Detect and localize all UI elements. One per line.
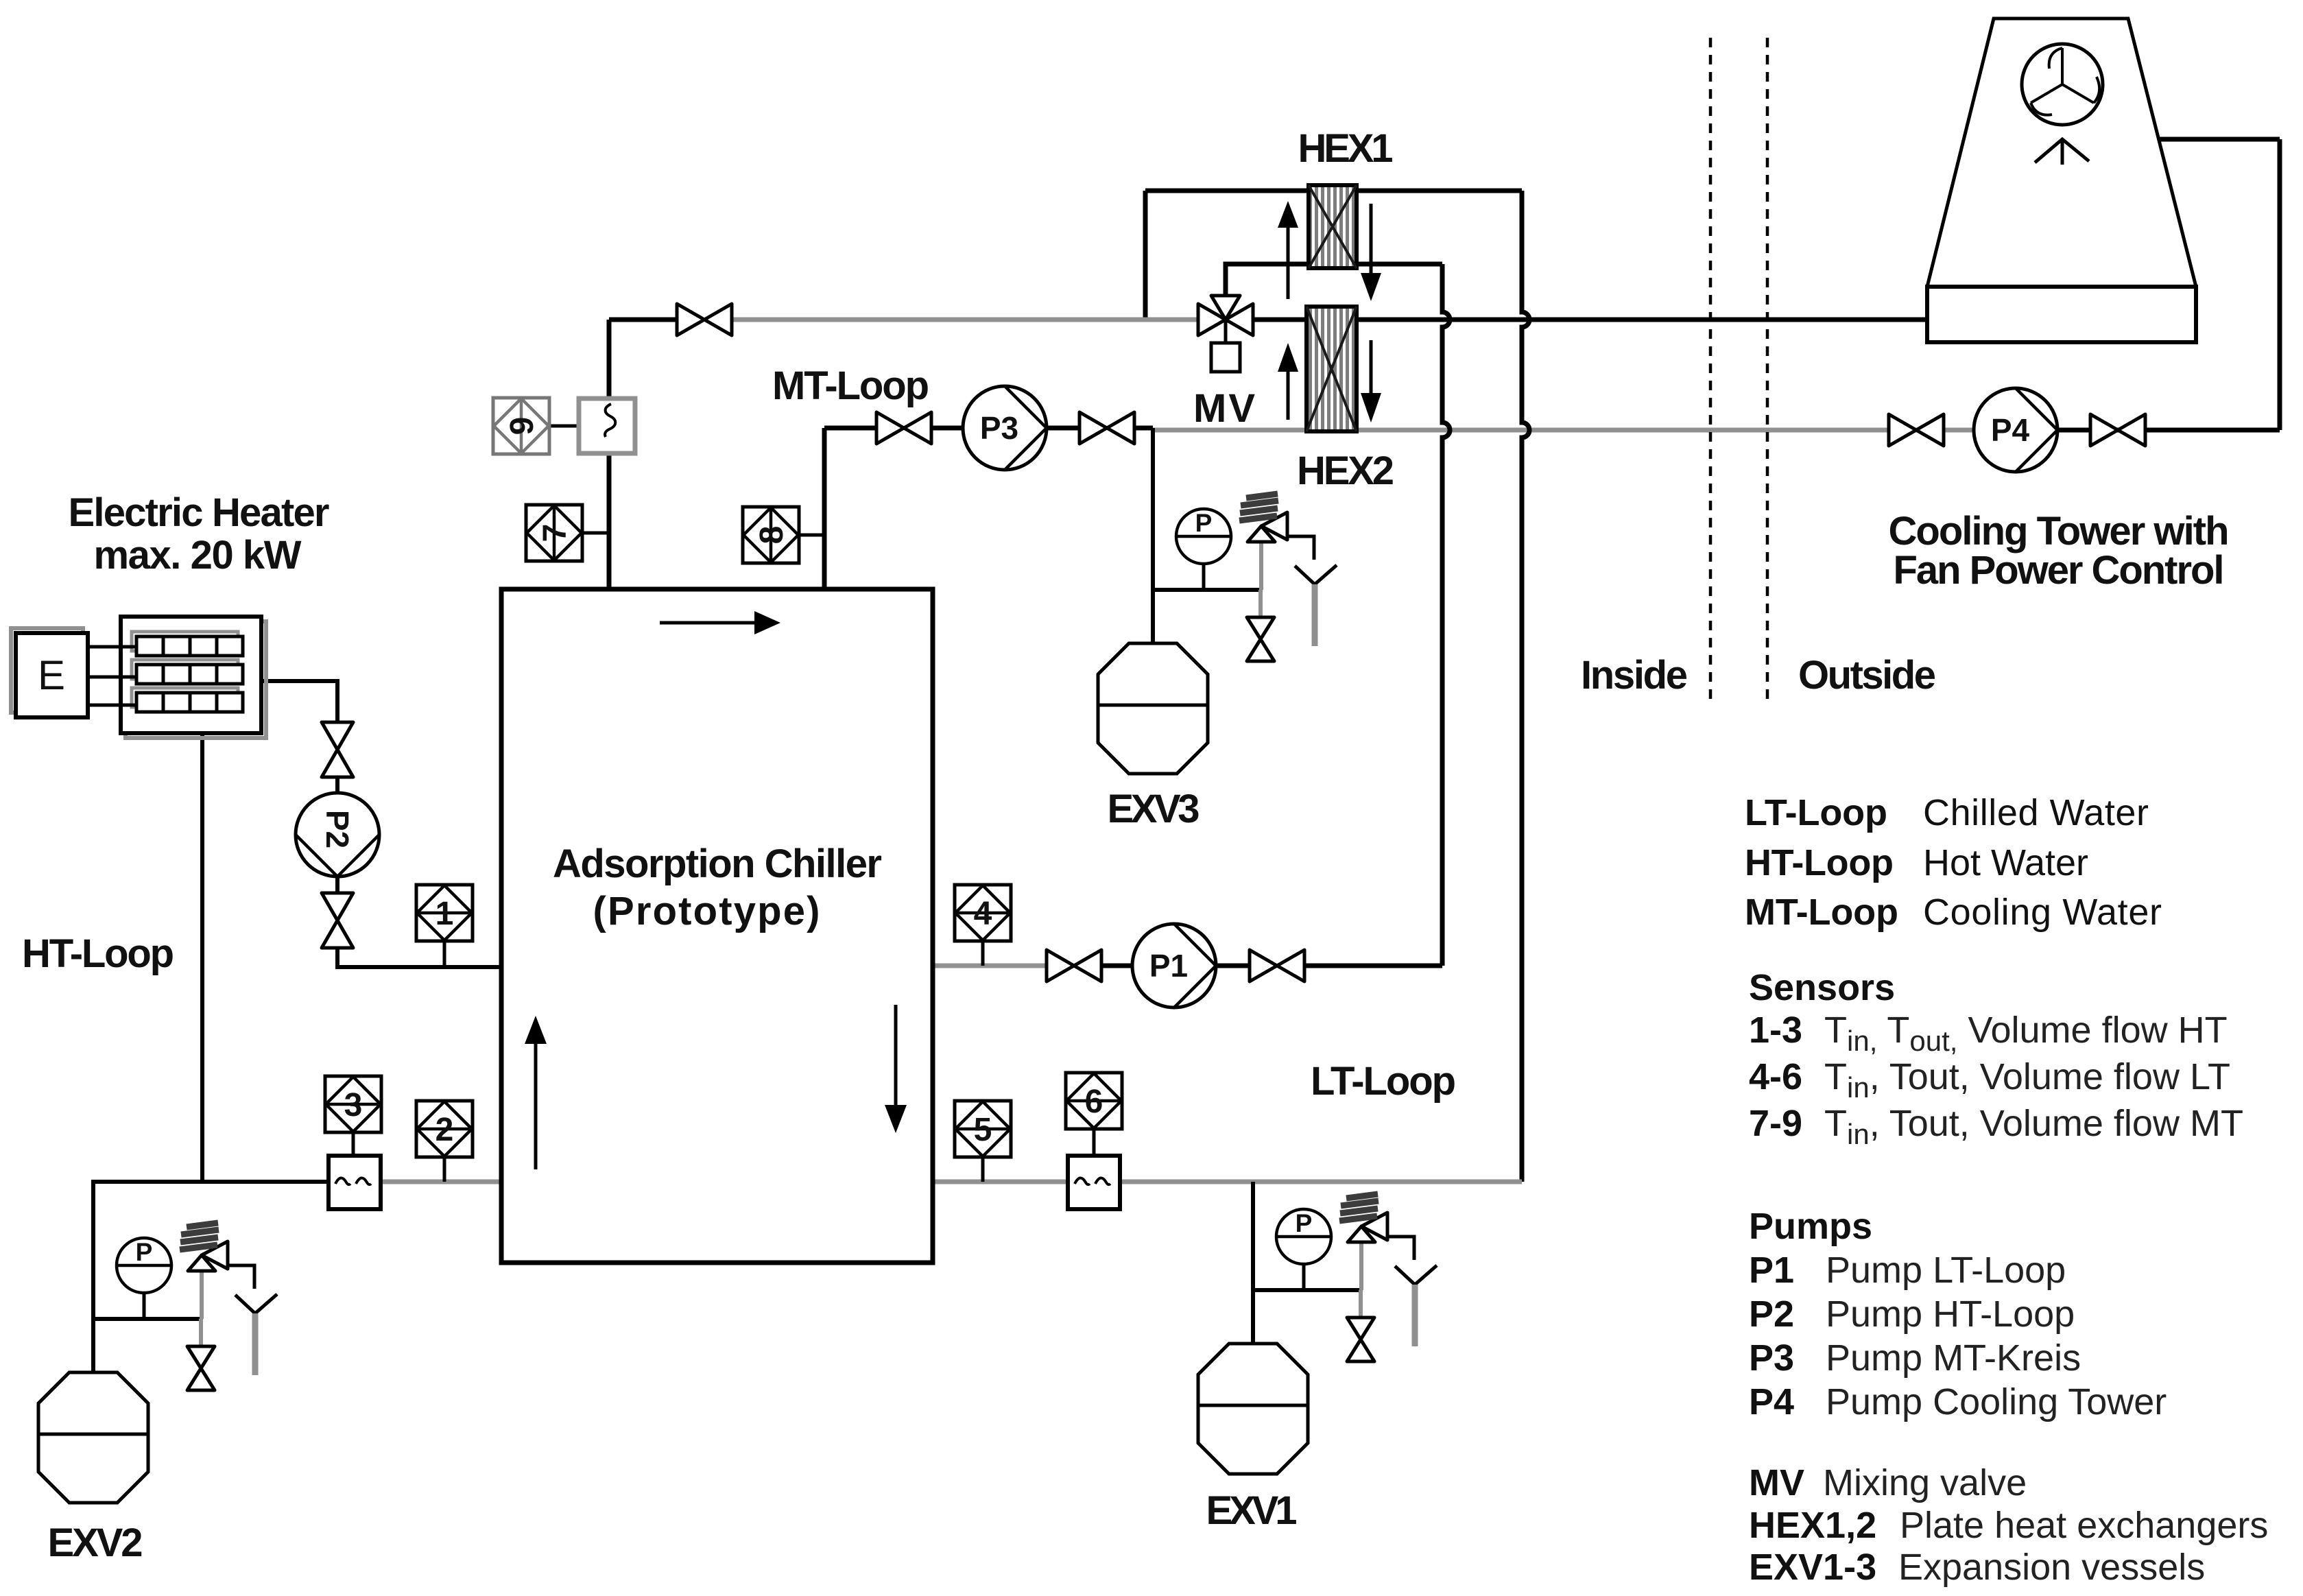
valve right of P4 bbox=[2090, 414, 2145, 446]
wire: P3 line black segments bbox=[824, 426, 1153, 431]
svg-text:7: 7 bbox=[537, 524, 573, 543]
adsorption chiller box bbox=[501, 589, 933, 1263]
dashed boundary line 2 bbox=[1766, 38, 1769, 703]
svg-text:LT-Loop: LT-Loop bbox=[1311, 1059, 1456, 1104]
svg-text:EXV1: EXV1 bbox=[1206, 1488, 1298, 1533]
svg-text:Inside: Inside bbox=[1581, 653, 1688, 698]
safety group EXV2 bbox=[93, 1223, 277, 1390]
sensor 6 stem bbox=[1093, 1129, 1096, 1156]
svg-text:Electric Heater: Electric Heater bbox=[69, 490, 330, 535]
svg-text:MT-Loop: MT-Loop bbox=[1745, 892, 1898, 933]
wire: chiller MT riser x1202 to P3 line bbox=[822, 428, 827, 589]
svg-text:HEX1,2Plate heat exchangers: HEX1,2Plate heat exchangers bbox=[1749, 1505, 2268, 1546]
svg-text:6: 6 bbox=[1085, 1084, 1103, 1120]
wire: EXV1 drop line bbox=[1251, 1182, 1255, 1344]
sensor 1 bbox=[416, 885, 473, 941]
svg-text:Hot Water: Hot Water bbox=[1923, 842, 2088, 883]
pump P4 bbox=[1974, 388, 2057, 472]
electric heater outer box shadow bbox=[126, 621, 266, 738]
svg-text:P3: P3 bbox=[980, 410, 1018, 446]
svg-text:Fan Power Control: Fan Power Control bbox=[1894, 548, 2225, 593]
valve on MT supply top left bbox=[677, 304, 732, 335]
svg-text:1: 1 bbox=[435, 896, 454, 932]
svg-text:P1: P1 bbox=[1149, 948, 1188, 984]
sensor 4 bbox=[955, 885, 1011, 941]
sensor 6 bbox=[1066, 1073, 1122, 1129]
svg-text:MV: MV bbox=[1193, 386, 1255, 431]
mixing valve MV bbox=[1198, 296, 1253, 372]
svg-text:HT-Loop: HT-Loop bbox=[1745, 842, 1894, 883]
wire: tower right riser bbox=[2278, 139, 2282, 430]
wire: chiller MT riser x888 bbox=[607, 320, 612, 589]
svg-text:P4: P4 bbox=[1991, 412, 2030, 448]
wire: V1 drop HEX1-bottom to LT supply with jogs bbox=[1442, 264, 1450, 966]
valve left of P3 bbox=[876, 412, 931, 444]
wire: MV to HEX2 left port bbox=[1253, 318, 1306, 322]
HEX2 block bbox=[1306, 307, 1357, 431]
svg-text:HEX1: HEX1 bbox=[1298, 126, 1394, 171]
heater element row 2 bbox=[132, 660, 243, 684]
sensor 2 stem bbox=[443, 1156, 446, 1182]
wire: MT supply gray valve to MV bbox=[731, 318, 1198, 322]
svg-text:EXV2: EXV2 bbox=[48, 1521, 143, 1565]
pump P1 bbox=[1132, 924, 1216, 1008]
wire: HEX1 top line bbox=[1145, 189, 1522, 193]
cooling tower basin bbox=[1927, 287, 2196, 342]
svg-text:Outside: Outside bbox=[1798, 653, 1936, 698]
chiller flow arrow top bbox=[660, 621, 754, 625]
HEX1 up arrow bbox=[1278, 201, 1298, 299]
sensor 8 (rotated) bbox=[743, 507, 799, 563]
HEX2 down arrow bbox=[1361, 340, 1381, 422]
safety group EXV1 bbox=[1253, 1194, 1437, 1361]
HEX1 down arrow bbox=[1361, 204, 1381, 301]
svg-text:Pumps: Pumps bbox=[1749, 1206, 1872, 1247]
svg-text:Chilled Water: Chilled Water bbox=[1923, 792, 2149, 833]
wire: heater bottom stem bbox=[200, 733, 204, 1182]
svg-text:(Prototype): (Prototype) bbox=[593, 889, 820, 933]
flow meter LT bbox=[1068, 1156, 1120, 1209]
sensor 4 stem bbox=[981, 940, 985, 966]
sensor 7 (rotated) bbox=[526, 505, 582, 561]
E box shadow bbox=[11, 628, 83, 713]
wire: LT supply black segments P1 bbox=[1102, 964, 1442, 968]
heater element row 3 bbox=[132, 688, 243, 712]
svg-text:P2: P2 bbox=[320, 810, 355, 848]
cooling tower fan bbox=[2022, 44, 2103, 125]
electric heater outer box bbox=[121, 617, 261, 733]
heater element row 1 bbox=[132, 632, 243, 656]
HEX1 block bbox=[1309, 185, 1357, 268]
flow meter MT (gray) bbox=[579, 398, 635, 453]
wire: MT return gray from EXV3 junction under HEX2 to P4 bbox=[1153, 428, 1974, 433]
wire: EXV3 drop line bbox=[1151, 428, 1155, 643]
expansion vessel EXV2 bbox=[38, 1372, 148, 1503]
cooling tower body bbox=[1927, 19, 2196, 287]
sensor 3 bbox=[325, 1076, 381, 1132]
wire: HT return gray flow meter to chiller bbox=[381, 1180, 501, 1184]
sensor 3 stem bbox=[352, 1132, 355, 1158]
wire: HT return black EXV2 corner to flow meter bbox=[93, 1182, 329, 1372]
valve left of P4 bbox=[1889, 414, 1944, 446]
svg-text:LT-Loop: LT-Loop bbox=[1745, 792, 1887, 833]
svg-text:EXV1-3Expansion vessels: EXV1-3Expansion vessels bbox=[1749, 1547, 2205, 1588]
wire: HT supply heater to P2 string bbox=[261, 681, 337, 722]
svg-text:2: 2 bbox=[435, 1112, 454, 1148]
valve right of P3 bbox=[1079, 412, 1134, 444]
expansion vessel EXV1 bbox=[1198, 1344, 1308, 1474]
pump P2 bbox=[296, 793, 379, 877]
wire: HEX1 bottom-right line bbox=[1357, 262, 1442, 267]
sensor 9 stem bbox=[550, 425, 579, 428]
chiller flow arrow up bbox=[534, 1043, 538, 1169]
svg-text:9: 9 bbox=[504, 417, 540, 436]
svg-text:EXV3: EXV3 bbox=[1108, 787, 1200, 831]
svg-text:Adsorption Chiller: Adsorption Chiller bbox=[553, 842, 882, 886]
HEX2 up arrow bbox=[1278, 343, 1298, 420]
wire: HEX2 right port to cooling tower basin bbox=[1357, 318, 1927, 322]
svg-text:max. 20 kW: max. 20 kW bbox=[94, 533, 302, 577]
wire: tower top spray line bbox=[2062, 137, 2280, 142]
dashed boundary line 1 bbox=[1709, 38, 1713, 703]
sensor 7 stem bbox=[582, 532, 609, 535]
svg-text:MT-Loop: MT-Loop bbox=[772, 364, 929, 408]
valve above P2 bbox=[322, 722, 353, 777]
svg-text:3: 3 bbox=[344, 1087, 363, 1123]
wire: V2 drop HEX1-top to LT return with jogs bbox=[1522, 191, 1529, 1182]
svg-text:Cooling Tower with: Cooling Tower with bbox=[1889, 509, 2230, 553]
svg-text:Cooling Water: Cooling Water bbox=[1923, 892, 2162, 933]
wires E box to heater bbox=[88, 647, 136, 705]
svg-text:4: 4 bbox=[974, 896, 992, 932]
sensor 2 bbox=[416, 1101, 473, 1157]
chiller flow arrow down bbox=[894, 1005, 898, 1106]
E box bbox=[16, 633, 88, 717]
wire: left drop from HEX1 top line to MT supply bbox=[1143, 191, 1148, 320]
wire: MT return black P4 to tower riser bbox=[2057, 428, 2280, 433]
flow meter HT bbox=[329, 1156, 381, 1209]
svg-text:HT-Loop: HT-Loop bbox=[22, 931, 174, 976]
sensor 8 stem bbox=[798, 534, 824, 537]
safety group EXV3 bbox=[1153, 494, 1337, 661]
svg-text:E: E bbox=[38, 652, 65, 698]
tower spray arrow bbox=[2035, 139, 2089, 165]
sensor 5 stem bbox=[981, 1156, 985, 1182]
wire: P2 string segments bbox=[337, 777, 501, 967]
wire: MT supply black from chiller riser to valve bbox=[609, 318, 677, 322]
sensor 9 (rotated gray) bbox=[493, 398, 549, 454]
svg-text:MVMixing valve: MVMixing valve bbox=[1749, 1462, 2027, 1503]
wire: LT supply gray chiller to valve bbox=[933, 964, 1047, 968]
sensor 5 bbox=[955, 1101, 1011, 1157]
svg-text:5: 5 bbox=[974, 1112, 992, 1148]
wire: LT return gray chiller to V2 bbox=[933, 1180, 1522, 1184]
valve right of P1 bbox=[1250, 950, 1304, 981]
svg-text:HEX2: HEX2 bbox=[1297, 449, 1394, 493]
wire: HEX1 bottom-left line to MV bbox=[1226, 264, 1309, 300]
valve left of P1 bbox=[1047, 950, 1101, 981]
valve below P2 bbox=[322, 893, 353, 948]
svg-text:8: 8 bbox=[754, 526, 790, 545]
svg-text:Sensors: Sensors bbox=[1749, 967, 1895, 1008]
expansion vessel EXV3 bbox=[1098, 643, 1208, 774]
pump P3 bbox=[963, 386, 1047, 470]
sensor 1 stem bbox=[443, 941, 446, 967]
